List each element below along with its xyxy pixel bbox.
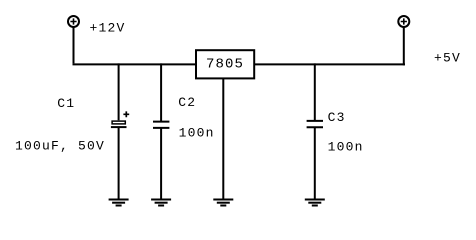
svg-text:+12V: +12V xyxy=(90,20,126,35)
svg-text:C2: C2 xyxy=(178,95,196,110)
wire from +12V terminal xyxy=(73,27,75,63)
wire C1 bottom xyxy=(118,128,120,200)
ground (C3) xyxy=(305,200,325,206)
capacitor C3 xyxy=(307,63,323,199)
C3 top plate xyxy=(307,120,323,122)
C1 top plate xyxy=(112,121,125,124)
ground (7805) xyxy=(213,200,233,206)
wire C3 top xyxy=(314,63,316,121)
C2 top plate xyxy=(153,121,169,123)
wire C1 top xyxy=(118,63,120,120)
C1 polarity + xyxy=(123,111,129,117)
wire C3 bottom xyxy=(314,127,316,199)
wire input bus xyxy=(73,63,197,65)
capacitor C1 (electrolytic) xyxy=(111,63,129,199)
terminal +12V xyxy=(68,16,79,27)
svg-text:+5V: +5V xyxy=(434,51,461,66)
capacitor C2 xyxy=(153,63,169,199)
wire from +5V terminal xyxy=(403,27,405,65)
ground (C1) xyxy=(109,200,129,206)
C1 bottom plate xyxy=(111,126,127,128)
regulator U1 7805 xyxy=(196,50,254,78)
svg-text:100n: 100n xyxy=(328,139,364,154)
svg-text:100uF, 50V: 100uF, 50V xyxy=(15,139,105,154)
wire 7805 GND pin xyxy=(222,78,224,199)
svg-text:7805: 7805 xyxy=(206,57,244,73)
ground (C2) xyxy=(151,200,171,206)
C3 bottom plate xyxy=(307,126,323,128)
wire C2 bottom xyxy=(160,128,162,200)
C2 bottom plate xyxy=(153,127,169,129)
svg-text:C1: C1 xyxy=(57,96,75,111)
svg-text:C3: C3 xyxy=(328,110,346,125)
wire C2 top xyxy=(160,63,162,121)
wire output bus xyxy=(254,63,405,65)
terminal +5V xyxy=(398,16,409,27)
svg-text:100n: 100n xyxy=(179,126,215,141)
